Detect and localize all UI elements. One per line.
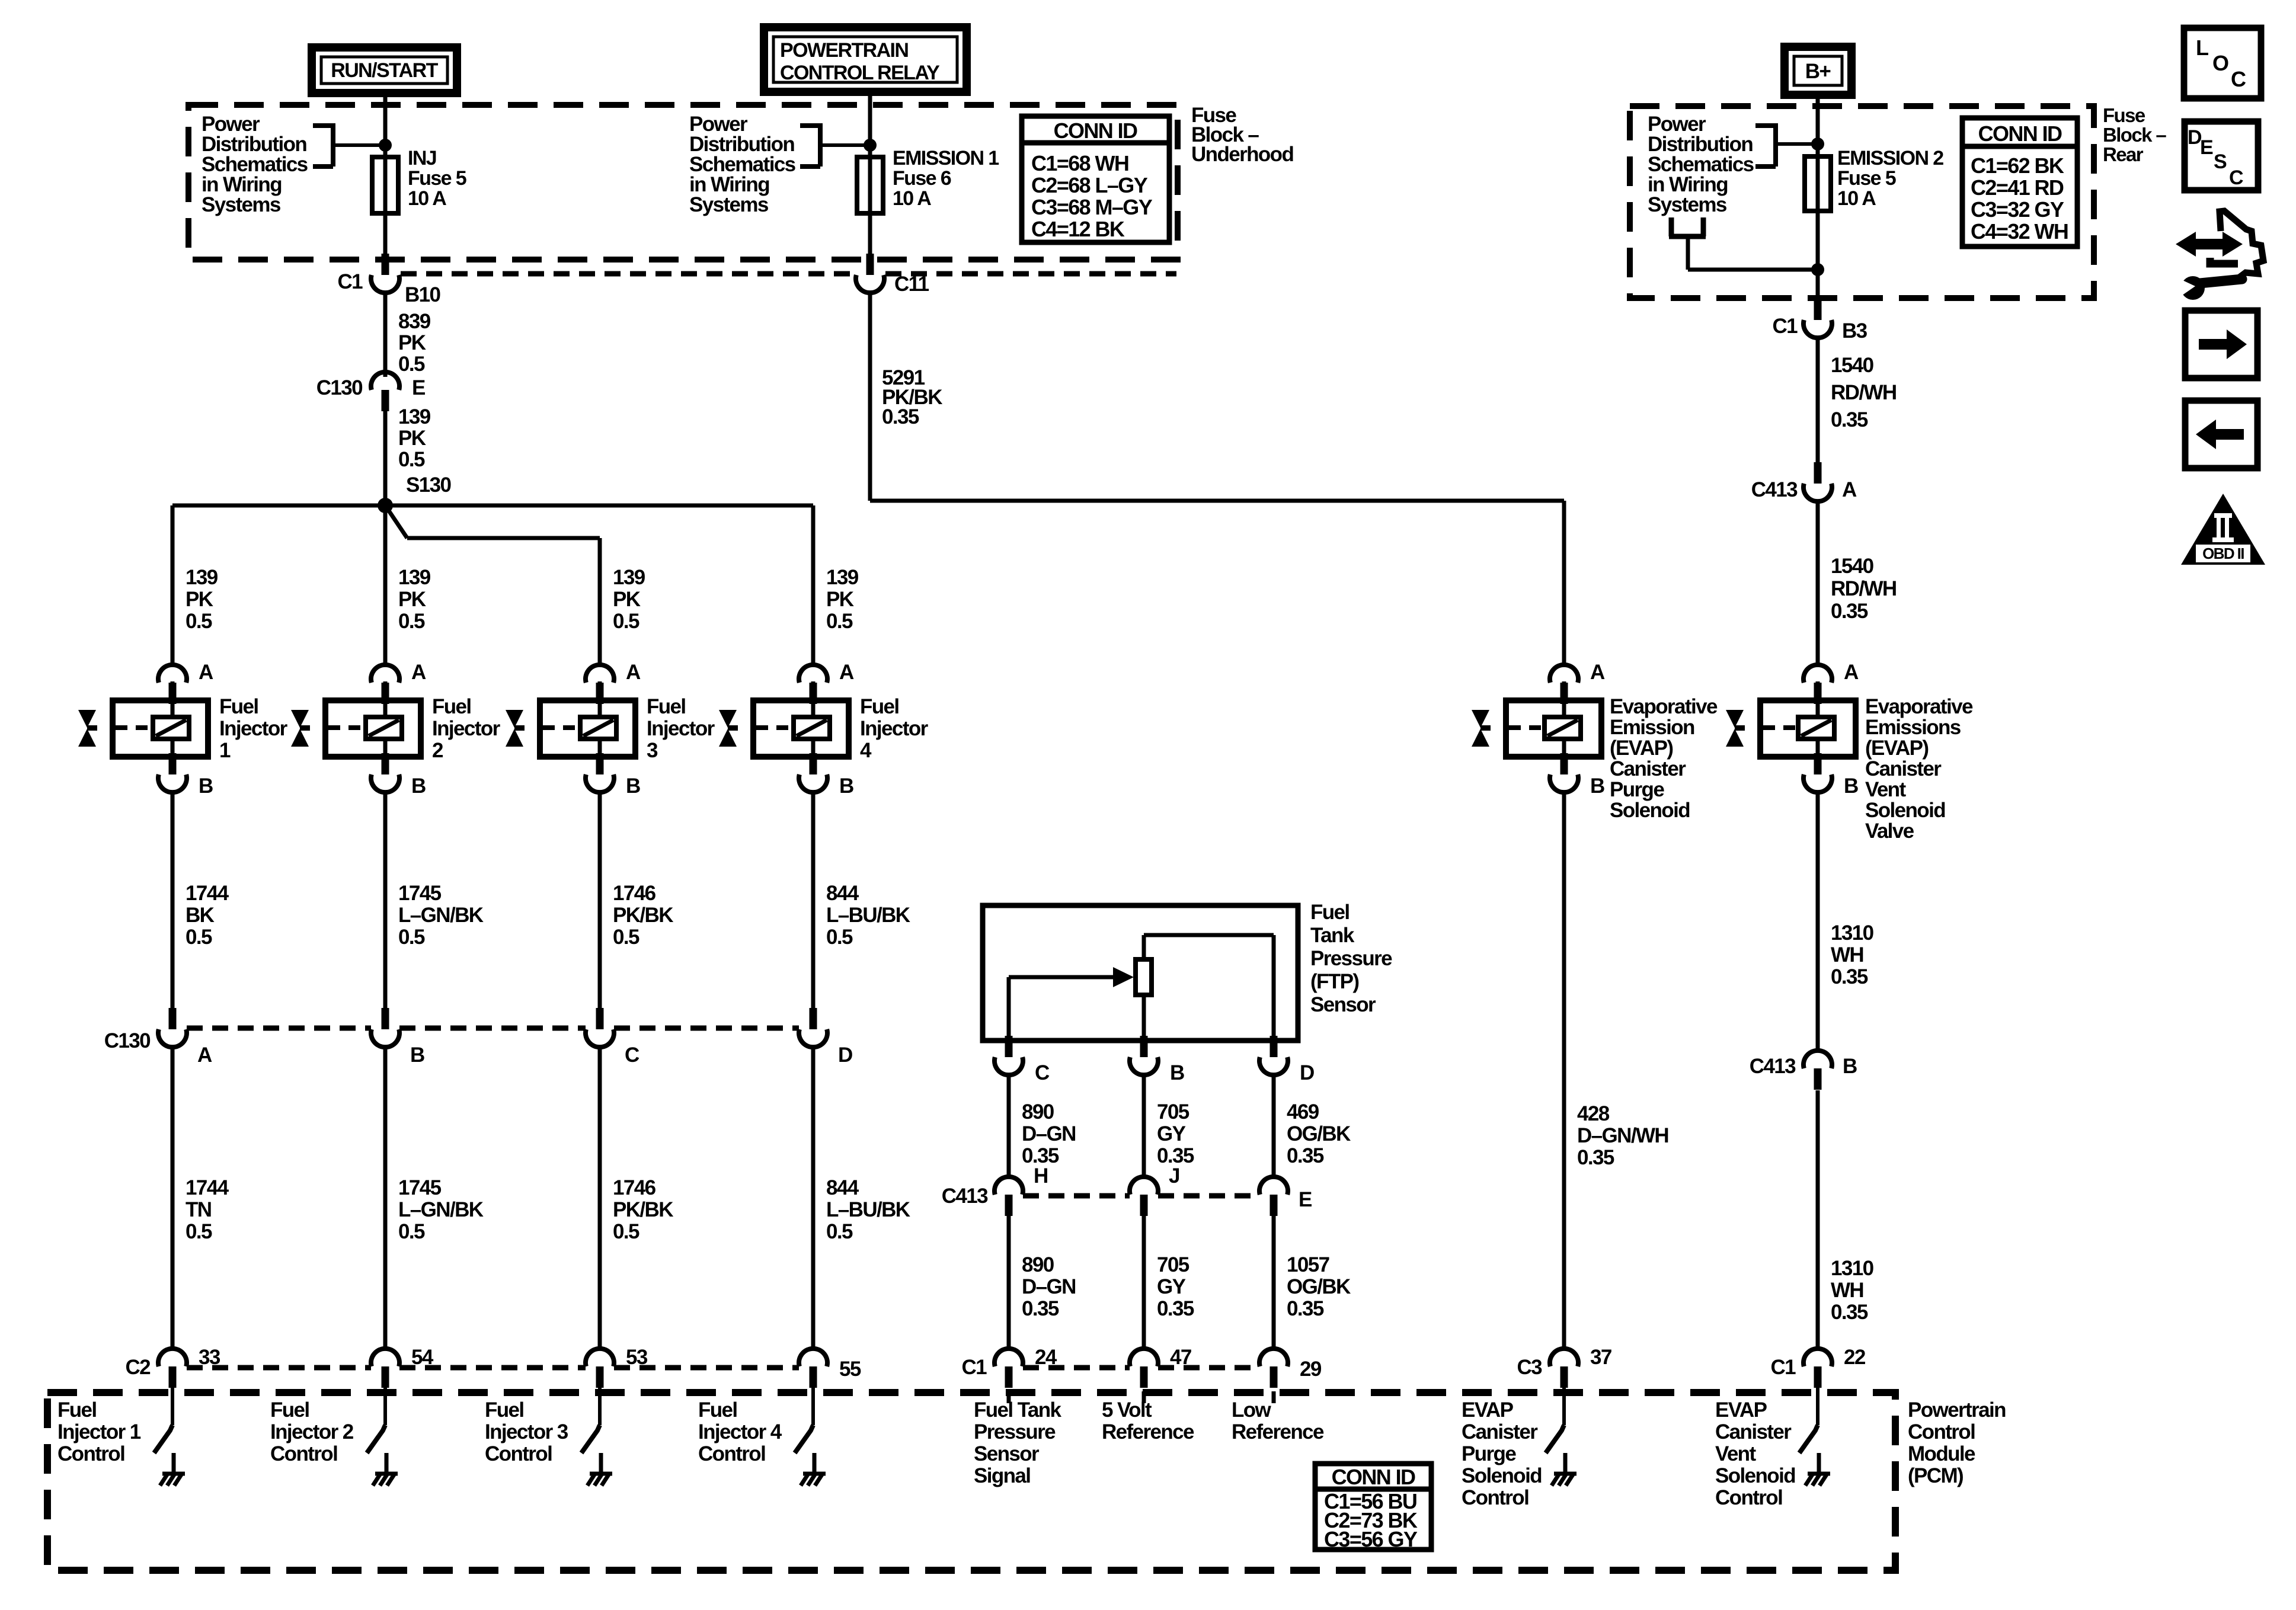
svg-text:Canister: Canister [1610,757,1686,780]
note power distribution schematics left [202,113,392,216]
svg-text:CONN ID: CONN ID [1332,1465,1415,1489]
svg-text:Control: Control [1462,1486,1528,1509]
svg-text:RD/WH: RD/WH [1831,381,1897,404]
svg-text:E: E [412,376,425,399]
powertrain control module box [47,1393,2006,1570]
svg-text:139: 139 [826,566,859,589]
evap vent bowtie [1726,710,1745,747]
svg-text:Solenoid: Solenoid [1462,1464,1542,1487]
svg-text:Fuse 6: Fuse 6 [893,167,951,190]
connector row dashes PCM C1 [1023,1365,1259,1371]
icon check/repair [2174,211,2263,300]
icon DESC box [2185,121,2258,190]
icon arrow left box [2185,401,2257,468]
wire injector 1 control to PCM [172,1046,229,1349]
svg-text:Systems: Systems [1648,193,1727,216]
fuel injector 3 pin A [586,661,641,704]
svg-text:22: 22 [1844,1346,1866,1369]
evap purge pin A [1550,661,1605,704]
wire 469 OG/BK [1274,1074,1351,1179]
svg-text:C3: C3 [1517,1356,1542,1379]
svg-text:1310: 1310 [1831,1257,1874,1280]
svg-text:EVAP: EVAP [1715,1398,1767,1422]
svg-text:0.35: 0.35 [1287,1144,1324,1167]
svg-text:WH: WH [1831,1279,1863,1302]
svg-text:A: A [1842,478,1857,501]
svg-text:Purge: Purge [1462,1442,1516,1465]
conn id table pcm [1315,1464,1431,1551]
svg-text:Solenoid: Solenoid [1610,799,1690,822]
wire relay to fuse [868,92,872,260]
connector C413 J [1130,1164,1179,1216]
svg-text:PK: PK [398,588,426,611]
svg-text:Fuse: Fuse [2103,104,2145,126]
svg-text:Fuel: Fuel [57,1398,97,1422]
fuel injector 1 pin A [158,661,213,704]
svg-text:4: 4 [860,739,872,762]
svg-text:Signal: Signal [974,1464,1030,1487]
svg-text:Tank: Tank [1310,924,1355,947]
ftp wire top [1144,935,1274,1041]
svg-text:Sensor: Sensor [974,1442,1040,1465]
svg-text:C2=68 L–GY: C2=68 L–GY [1031,173,1148,197]
svg-text:Pressure: Pressure [1310,947,1392,970]
svg-text:O: O [2212,51,2228,75]
svg-text:Fuse 5: Fuse 5 [408,167,466,190]
wire 139 PK 0.5 main [385,405,431,505]
svg-text:0.5: 0.5 [826,926,853,949]
svg-text:37: 37 [1590,1346,1611,1369]
svg-text:1746: 1746 [613,882,656,905]
wire injector 2 control to PCM [385,1046,484,1349]
svg-text:1057: 1057 [1287,1253,1329,1276]
svg-text:0.5: 0.5 [613,610,639,633]
svg-text:705: 705 [1157,1253,1189,1276]
wire injector 2 to C130 [385,792,484,1010]
svg-text:Systems: Systems [202,193,281,216]
wire 1310 WH upper [1818,792,1874,1051]
svg-text:53: 53 [626,1346,648,1369]
connector C1 B10 [337,254,440,306]
svg-text:0.5: 0.5 [398,448,425,471]
connector row dashes C130 [187,1026,799,1031]
connector C2 33 [125,1346,220,1388]
svg-text:0.35: 0.35 [1577,1146,1614,1169]
svg-text:(EVAP): (EVAP) [1865,737,1928,760]
svg-text:C: C [1035,1061,1050,1084]
svg-text:Fuel: Fuel [647,695,686,718]
connector C130 E [316,372,425,411]
svg-text:139: 139 [398,566,431,589]
evap vent body [1760,681,1973,843]
svg-text:1310: 1310 [1831,921,1874,945]
svg-text:Solenoid: Solenoid [1865,799,1945,822]
power tag POWERTRAIN CONTROL RELAY [764,27,967,92]
svg-text:Fuel: Fuel [485,1398,524,1422]
connector 29 [1259,1349,1322,1388]
connector C413 E [1259,1177,1312,1216]
wire 5291 PK/BK 0.35 [870,292,1564,666]
svg-text:EVAP: EVAP [1462,1398,1514,1422]
svg-text:839: 839 [398,310,431,333]
svg-text:0.5: 0.5 [398,610,425,633]
svg-text:CONN ID: CONN ID [1054,119,1137,143]
connector C3 37 [1517,1346,1611,1388]
svg-text:INJ: INJ [408,147,436,169]
connector 53 [586,1346,648,1388]
svg-text:PK: PK [826,588,854,611]
fuel injector 2 pin B [371,753,426,798]
svg-text:0.5: 0.5 [398,926,425,949]
wire injector 3 to C130 [600,792,673,1010]
svg-text:844: 844 [826,882,859,905]
svg-text:Fuel: Fuel [219,695,258,718]
svg-text:Canister: Canister [1865,757,1942,780]
fuel injector 1 pin B [158,753,213,798]
fuel injector 4 pin B [799,753,853,798]
svg-text:Fuel: Fuel [432,695,471,718]
svg-text:GY: GY [1157,1275,1186,1298]
pcm switch fuel injector 2 [270,1385,398,1486]
svg-text:PK: PK [186,588,213,611]
svg-text:0.35: 0.35 [1831,600,1868,623]
wire injector 4 control to PCM [813,1046,910,1349]
wire 1057 OG/BK [1274,1216,1351,1349]
svg-text:CONN ID: CONN ID [1978,121,2062,146]
svg-text:L–BU/BK: L–BU/BK [826,904,910,927]
svg-text:EMISSION 1: EMISSION 1 [893,147,999,169]
connector C130 A [104,1008,212,1067]
fuel injector 4 pin A [799,661,854,704]
fuel injector 4 bowtie [719,710,738,747]
svg-text:0.35: 0.35 [1022,1297,1059,1320]
connector C130 B [371,1008,424,1067]
svg-text:Canister: Canister [1462,1420,1538,1443]
svg-text:Sensor: Sensor [1310,993,1376,1016]
wire run/start to fuse [383,93,388,260]
svg-text:1: 1 [219,739,231,762]
svg-text:0.5: 0.5 [398,1220,425,1243]
svg-text:428: 428 [1577,1102,1610,1125]
svg-text:C1: C1 [337,270,363,293]
svg-text:(EVAP): (EVAP) [1610,737,1673,760]
connector C1 22 [1770,1346,1865,1388]
pcm switch fuel injector 3 [485,1385,612,1486]
wire 705 GY upper [1144,1074,1194,1179]
svg-text:GY: GY [1157,1122,1186,1145]
fuse EMISSION 1 Fuse 6 [857,147,999,213]
svg-text:Injector 1: Injector 1 [57,1420,141,1443]
pcm switch fuel injector 1 [57,1385,185,1486]
svg-text:Control: Control [485,1442,552,1465]
svg-text:2: 2 [432,739,443,762]
pcm input low reference [1232,1391,1324,1443]
svg-text:0.35: 0.35 [1831,965,1868,988]
svg-text:RUN/START: RUN/START [331,59,438,82]
svg-text:C: C [2229,167,2243,189]
svg-text:Vent: Vent [1865,778,1906,801]
fuel injector 2 bowtie [291,710,310,747]
fuse INJ Fuse 5 [372,147,466,213]
svg-text:Control: Control [270,1442,337,1465]
svg-text:Rear: Rear [2103,143,2144,165]
svg-text:B+: B+ [1805,60,1831,83]
svg-text:PK: PK [613,588,641,611]
svg-text:Control: Control [1715,1486,1782,1509]
power tag RUN/START [312,47,457,93]
wire 139 PK injector 3 [600,538,645,666]
ftp pin B [1130,1036,1184,1084]
svg-text:POWERTRAIN: POWERTRAIN [780,39,908,62]
connector C130 D [799,1008,852,1067]
ftp resistor [1136,959,1152,995]
pcm input 5 volt reference [1102,1391,1194,1443]
svg-text:D–GN: D–GN [1022,1275,1076,1298]
wire B+ to fuse [1816,95,1820,300]
svg-text:0.5: 0.5 [826,610,853,633]
svg-text:Injector: Injector [647,717,715,740]
svg-text:Module: Module [1908,1442,1975,1465]
label Fuse Block Rear [2103,104,2166,165]
evap purge bowtie [1472,710,1491,747]
svg-text:Fuse 5: Fuse 5 [1837,167,1896,190]
svg-text:(PCM): (PCM) [1908,1464,1963,1487]
svg-text:24: 24 [1035,1346,1057,1369]
svg-text:0.5: 0.5 [186,1220,212,1243]
connector row dashes PCM C2 [187,1365,799,1371]
svg-text:C1: C1 [961,1356,987,1379]
svg-text:A: A [197,1044,212,1067]
connector 54 [371,1346,434,1388]
svg-text:469: 469 [1287,1100,1319,1124]
wire 139 PK injector 4 [813,505,859,666]
svg-text:Underhood: Underhood [1191,143,1293,166]
wire 139 PK injector 2 [385,505,431,666]
svg-text:Reference: Reference [1102,1420,1194,1443]
svg-text:C4=32 WH: C4=32 WH [1971,219,2068,244]
svg-text:Injector 4: Injector 4 [698,1420,782,1443]
svg-text:0.5: 0.5 [398,353,425,376]
svg-text:C2=41 RD: C2=41 RD [1971,175,2064,200]
svg-text:Low: Low [1232,1398,1272,1422]
connector C11 [856,254,929,296]
svg-text:Injector 2: Injector 2 [270,1420,354,1443]
fuel injector 4 body [753,681,929,762]
connector 47 [1130,1346,1191,1388]
icon OBD II triangle [2181,494,2265,565]
evap purge body [1506,681,1718,822]
svg-text:S: S [2214,151,2227,173]
svg-text:0.5: 0.5 [613,926,639,949]
svg-text:OBD II: OBD II [2202,545,2244,562]
svg-text:1745: 1745 [398,882,442,905]
svg-text:L–GN/BK: L–GN/BK [398,904,484,927]
connector row dashes C413 [1023,1193,1259,1199]
svg-text:Reference: Reference [1232,1420,1324,1443]
svg-text:OG/BK: OG/BK [1287,1122,1351,1145]
svg-text:A: A [1844,661,1859,684]
svg-text:C1=68 WH: C1=68 WH [1031,151,1128,175]
fuse block rear box [1630,106,2094,298]
svg-text:PK/BK: PK/BK [613,1198,673,1221]
svg-text:Vent: Vent [1715,1442,1756,1465]
svg-text:Control: Control [698,1442,765,1465]
svg-text:139: 139 [186,566,218,589]
fuel injector 1 bowtie [78,710,97,747]
svg-text:C3=68 M–GY: C3=68 M–GY [1031,195,1153,219]
svg-text:C413: C413 [942,1185,988,1208]
svg-text:PK: PK [398,331,426,354]
svg-text:33: 33 [199,1346,220,1369]
svg-text:C1: C1 [1770,1356,1796,1379]
fuel injector 2 body [325,681,501,762]
svg-text:Pressure: Pressure [974,1420,1056,1443]
pcm switch evap purge [1462,1385,1576,1509]
svg-text:1540: 1540 [1831,354,1874,377]
svg-text:TN: TN [186,1198,211,1221]
svg-text:Valve: Valve [1865,820,1914,843]
fuel injector 3 body [540,681,715,762]
svg-text:PK: PK [398,427,426,450]
svg-text:Fuel: Fuel [860,695,899,718]
svg-text:Evaporative: Evaporative [1865,695,1973,718]
svg-text:E: E [2200,136,2213,159]
svg-text:B: B [199,774,213,798]
icon arrow right box [2185,311,2257,378]
svg-text:C1=62 BK: C1=62 BK [1971,153,2064,178]
svg-text:Powertrain: Powertrain [1908,1398,2006,1422]
svg-text:Emission: Emission [1610,716,1694,739]
svg-text:0.35: 0.35 [1831,408,1868,431]
fuel injector 3 bowtie [506,710,525,747]
svg-text:0.5: 0.5 [186,926,212,949]
svg-text:844: 844 [826,1176,859,1199]
svg-text:47: 47 [1170,1346,1191,1369]
wire branch injector 3 [385,505,600,538]
svg-text:J: J [1169,1164,1179,1188]
svg-text:139: 139 [613,566,645,589]
svg-text:Control: Control [1908,1420,1975,1443]
ftp wiper arrow [1009,967,1134,1041]
svg-text:890: 890 [1022,1100,1054,1124]
svg-text:D: D [1300,1061,1314,1084]
svg-text:E: E [1299,1188,1312,1211]
svg-text:L–GN/BK: L–GN/BK [398,1198,484,1221]
connector C413 B vent [1750,1051,1857,1090]
fuel injector 3 pin B [586,753,640,798]
ftp pin C [994,1036,1050,1084]
wire injector 3 control to PCM [600,1046,673,1349]
svg-text:PK/BK: PK/BK [613,904,673,927]
wire injector 4 to C130 [813,792,910,1010]
svg-text:0.35: 0.35 [1157,1297,1194,1320]
svg-text:890: 890 [1022,1253,1054,1276]
svg-text:55: 55 [839,1358,861,1381]
svg-text:B10: B10 [405,283,441,306]
wire bus S130 [172,504,813,508]
svg-text:0.35: 0.35 [1831,1301,1868,1324]
wire injector 1 to C130 [172,792,229,1010]
svg-text:Fuel: Fuel [270,1398,309,1422]
svg-text:D–GN: D–GN [1022,1122,1076,1145]
svg-text:B: B [1843,1055,1857,1078]
svg-text:Emissions: Emissions [1865,716,1961,739]
fuel tank pressure sensor box [983,901,1392,1041]
svg-text:B: B [411,774,426,798]
svg-text:(FTP): (FTP) [1310,970,1358,993]
svg-text:L–BU/BK: L–BU/BK [826,1198,910,1221]
svg-text:B3: B3 [1842,319,1868,343]
svg-text:Fuel: Fuel [1310,901,1350,924]
svg-text:705: 705 [1157,1100,1189,1124]
svg-text:0.5: 0.5 [186,610,212,633]
svg-text:Injector: Injector [860,717,929,740]
wire 1540 RD/WH upper [1818,337,1897,465]
ftp wire bottom [1142,995,1146,1041]
evap vent pin A [1803,661,1859,704]
fuse EMISSION 2 Fuse 5 [1805,147,1943,211]
svg-text:C413: C413 [1750,1055,1796,1078]
wire 428 D-GN/WH [1564,792,1668,1349]
svg-text:B: B [1844,774,1858,798]
wire 890 D-GN lower [1009,1216,1076,1349]
note power distribution schematics rear [1648,113,1824,216]
svg-text:H: H [1034,1164,1048,1188]
power tag B+ [1785,47,1851,95]
wire 705 GY lower [1144,1216,1194,1349]
svg-text:139: 139 [398,405,431,428]
svg-text:A: A [1590,661,1605,684]
pcm switch evap vent [1715,1385,1830,1509]
ftp pin D [1259,1036,1314,1084]
svg-text:C2: C2 [125,1356,151,1379]
svg-text:RD/WH: RD/WH [1831,577,1897,600]
svg-text:WH: WH [1831,943,1863,966]
svg-text:Block –: Block – [2103,124,2166,146]
svg-text:Injector: Injector [219,717,288,740]
svg-text:Purge: Purge [1610,778,1664,801]
conn id table rear [1962,118,2077,247]
connector C1 B3 [1772,299,1867,343]
svg-text:B: B [839,774,853,798]
connector 55 [799,1349,861,1388]
connector C130 C [586,1008,639,1067]
connector C413 A [1751,462,1857,501]
svg-text:Systems: Systems [689,193,769,216]
svg-text:A: A [411,661,426,684]
svg-text:Control: Control [57,1442,124,1465]
svg-text:CONTROL RELAY: CONTROL RELAY [780,62,940,84]
svg-text:OG/BK: OG/BK [1287,1275,1351,1298]
svg-text:1744: 1744 [186,1176,229,1199]
svg-text:B: B [1170,1061,1184,1084]
pcm switch fuel injector 4 [698,1385,826,1486]
connector C1 24 [961,1346,1057,1388]
fuse block underhood box [188,105,1178,260]
splice S130 [378,473,451,513]
svg-text:10 A: 10 A [893,187,931,210]
svg-text:10 A: 10 A [1837,187,1876,210]
svg-text:A: A [626,661,641,684]
svg-text:5 Volt: 5 Volt [1102,1398,1152,1422]
svg-text:Fuel Tank: Fuel Tank [974,1398,1061,1422]
svg-text:0.35: 0.35 [882,405,919,428]
svg-text:0.5: 0.5 [613,1220,639,1243]
svg-text:C3=56 GY: C3=56 GY [1324,1527,1418,1551]
wire 890 D-GN upper [1009,1074,1076,1179]
svg-text:C130: C130 [104,1029,151,1052]
rear lower bracket to B+ wire [1669,217,1824,276]
